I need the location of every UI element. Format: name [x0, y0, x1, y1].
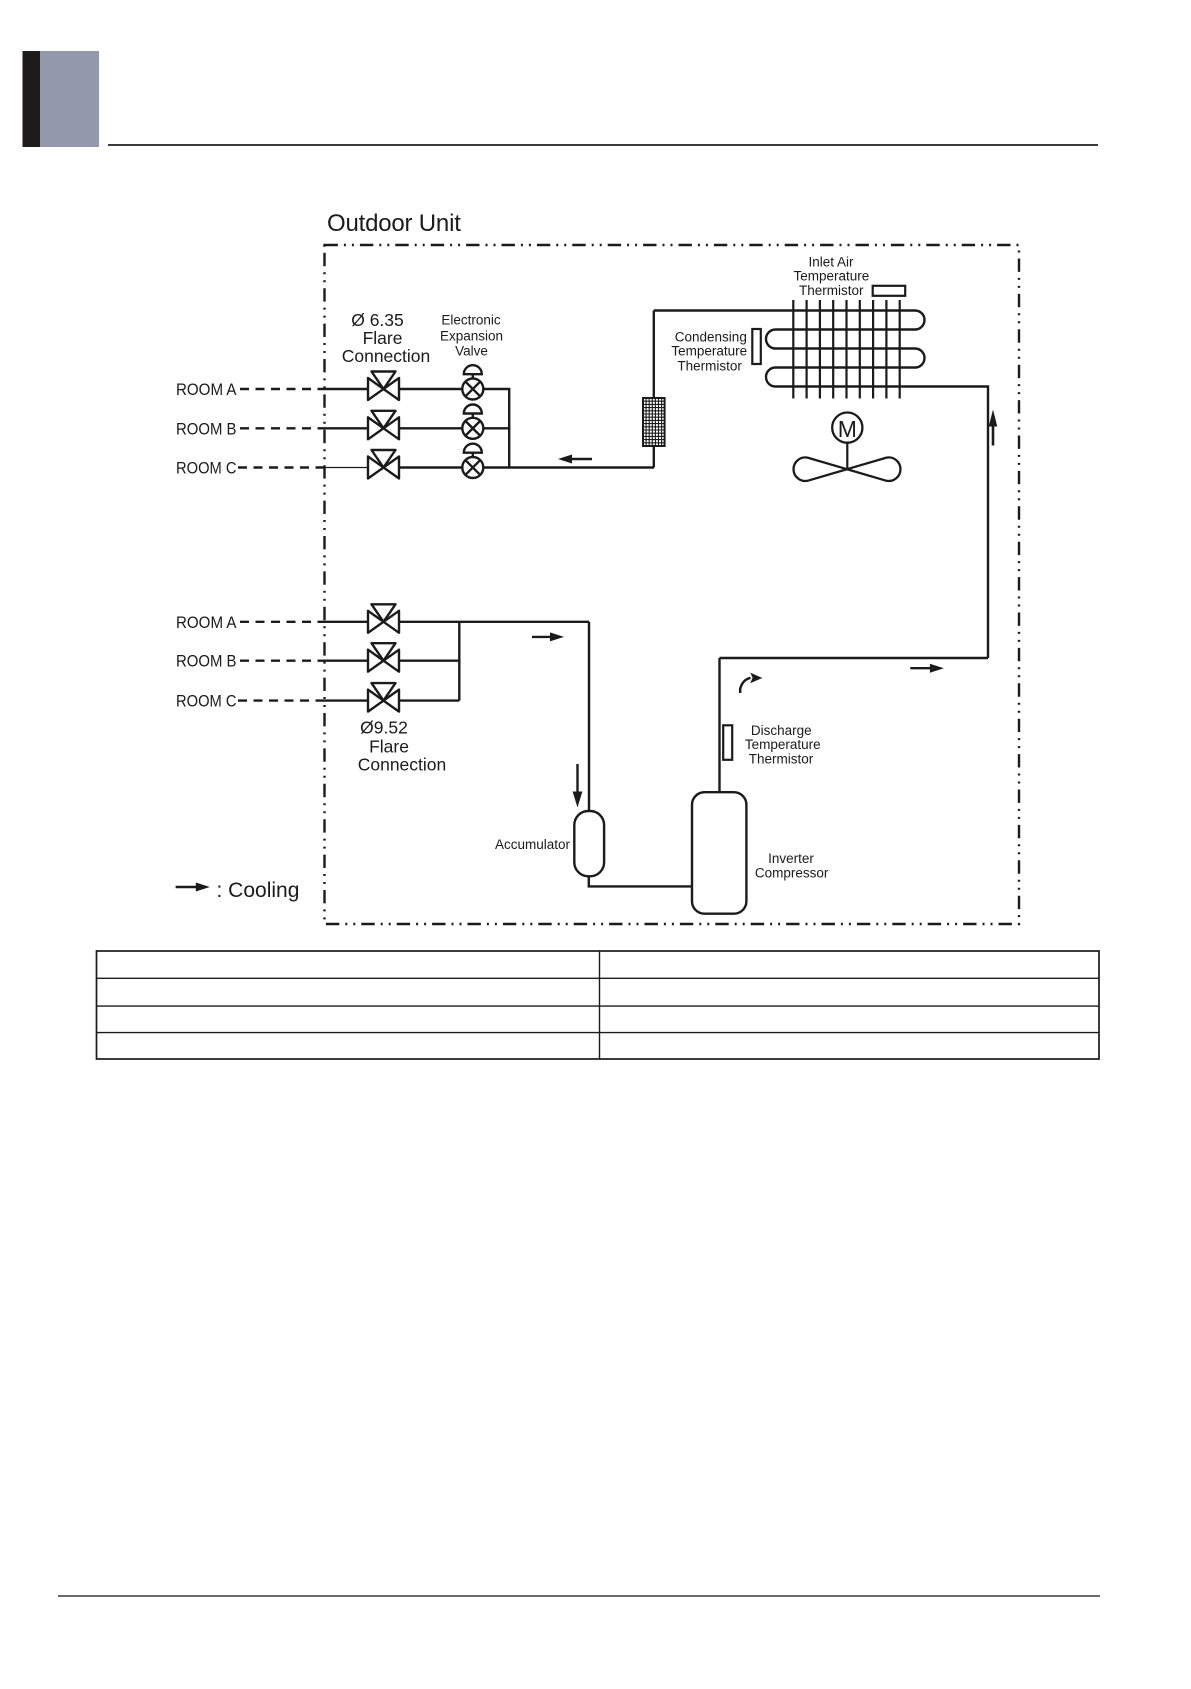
spec table column divider — [599, 951, 601, 1059]
accumulator — [574, 811, 604, 876]
header rule — [108, 144, 1098, 146]
footer rule — [58, 1595, 1100, 1597]
svg-text:ROOM C: ROOM C — [176, 693, 237, 711]
condenser fins — [793, 300, 899, 399]
flow arrow (right) on discharge line — [910, 664, 944, 673]
wire: row B valve to EEV — [399, 427, 462, 429]
svg-text:ROOM B: ROOM B — [176, 653, 237, 671]
svg-text:Thermistor: Thermistor — [677, 359, 742, 374]
svg-text:Temperature: Temperature — [794, 269, 870, 284]
svg-text:Connection: Connection — [358, 755, 447, 775]
wire: ROOM A upper dashed leader — [240, 388, 325, 390]
strainer / filter — [643, 398, 665, 446]
svg-text:Expansion: Expansion — [440, 329, 503, 344]
wire: ROOM B upper dashed leader — [240, 427, 325, 429]
spec table outer border — [97, 951, 1100, 1059]
wire: row B border to valve — [325, 427, 369, 429]
svg-text:Discharge: Discharge — [751, 723, 812, 738]
svg-text:Inverter: Inverter — [768, 851, 814, 866]
wire: suction downpipe — [588, 622, 590, 811]
flow arrow (left) on liquid line — [558, 455, 592, 464]
legend arrow — [176, 883, 210, 892]
outdoor unit boundary (dash-dot box) — [325, 245, 1020, 924]
service valve lower A (Ø9.52) — [368, 604, 399, 633]
electronic expansion valve 2 — [462, 405, 483, 439]
label Condensing Temperature Thermistor — [671, 330, 747, 374]
wire: upper collector vertical — [508, 389, 510, 468]
wire: lower row C valve to collector — [399, 699, 459, 701]
wire: lower row B border to valve — [325, 660, 369, 662]
svg-text:Thermistor: Thermistor — [749, 752, 814, 767]
svg-text:Flare: Flare — [369, 737, 409, 757]
wire: row B EEV to collector — [483, 427, 510, 429]
wire: accumulator outlet to compressor — [589, 876, 692, 886]
spec table row line 1 — [97, 977, 1100, 979]
wire: lower row A valve to downpipe — [399, 621, 589, 623]
condenser coil serpentine tube — [654, 311, 988, 659]
svg-text:Electronic: Electronic — [441, 313, 501, 328]
wire: row A EEV to collector — [483, 388, 510, 390]
inlet air temperature thermistor — [873, 286, 906, 296]
fan blades — [794, 457, 901, 481]
svg-text:Ø9.52: Ø9.52 — [360, 718, 408, 738]
fan motor M — [832, 413, 862, 443]
svg-text:Valve: Valve — [455, 344, 488, 359]
svg-text:Flare: Flare — [363, 328, 403, 348]
svg-text:Ø 6.35: Ø 6.35 — [351, 310, 404, 330]
wire: discharge riser from compressor — [718, 658, 720, 793]
svg-text:M: M — [838, 416, 857, 442]
flow arrow (down) at accumulator inlet — [573, 764, 583, 808]
label Inlet Air Temperature Thermistor — [794, 255, 870, 299]
svg-text:Thermistor: Thermistor — [799, 283, 864, 298]
wire: discharge horizontal to riser — [720, 657, 989, 659]
wire: lower row A border to valve — [325, 621, 369, 623]
service valve upper C (Ø6.35) — [368, 450, 399, 479]
svg-text:ROOM A: ROOM A — [176, 381, 237, 399]
wire: lower row C border to valve — [325, 699, 369, 701]
condensing temperature thermistor — [752, 329, 761, 364]
svg-text:Temperature: Temperature — [671, 344, 747, 359]
flow arrow (up) on riser — [989, 410, 998, 446]
svg-text:: Cooling: : Cooling — [217, 879, 300, 902]
svg-text:Connection: Connection — [342, 346, 431, 366]
service valve upper A (Ø6.35) — [368, 372, 399, 401]
wire: ROOM C upper dashed leader — [238, 466, 325, 468]
label Ø9.52 Flare Connection — [358, 718, 447, 775]
wire: strainer riser (row C up to condenser inlet) — [653, 446, 655, 468]
header black tab — [23, 51, 41, 147]
spec table row line 2 — [97, 1005, 1100, 1007]
svg-text:Accumulator: Accumulator — [495, 837, 571, 852]
electronic expansion valve 3 — [462, 444, 483, 478]
wire: lower collector vertical — [458, 622, 460, 701]
label Discharge Temperature Thermistor — [745, 723, 821, 767]
wire: ROOM C lower dashed leader — [238, 699, 325, 701]
svg-text:Condensing: Condensing — [675, 330, 747, 345]
wire: lower row B valve to collector — [399, 660, 459, 662]
flow arrow (right) on suction line — [532, 632, 564, 641]
label Electronic Expansion Valve — [440, 313, 503, 359]
wire: ROOM B lower dashed leader — [240, 660, 325, 662]
label Inverter Compressor — [755, 851, 829, 881]
svg-text:Temperature: Temperature — [745, 737, 821, 752]
inverter compressor — [692, 792, 746, 914]
svg-text:ROOM B: ROOM B — [176, 420, 237, 438]
wire: row C border to valve (thin) — [325, 467, 369, 469]
electronic expansion valve 1 — [462, 365, 483, 399]
wire: ROOM A lower dashed leader — [240, 621, 325, 623]
svg-text:Compressor: Compressor — [755, 866, 829, 881]
svg-text:ROOM C: ROOM C — [176, 460, 237, 478]
service valve upper B (Ø6.35) — [368, 411, 399, 440]
svg-text:ROOM A: ROOM A — [176, 614, 237, 632]
spec table row line 3 — [97, 1032, 1100, 1034]
fan shaft — [846, 443, 848, 470]
wire: row A valve to EEV — [399, 388, 462, 390]
svg-text:Inlet Air: Inlet Air — [808, 255, 854, 270]
service valve lower B (Ø9.52) — [368, 643, 399, 672]
wire: row C EEV to strainer riser — [483, 466, 654, 468]
service valve lower C (Ø9.52) — [368, 683, 399, 712]
wire: row C valve to EEV — [399, 466, 462, 468]
svg-text:Outdoor Unit: Outdoor Unit — [327, 210, 461, 237]
header gray tab — [40, 51, 99, 147]
label Ø 6.35 Flare Connection — [342, 310, 431, 366]
curved flow arrow at discharge bend — [740, 673, 762, 693]
discharge temperature thermistor — [723, 725, 732, 760]
wire: row A border to valve — [325, 388, 369, 390]
